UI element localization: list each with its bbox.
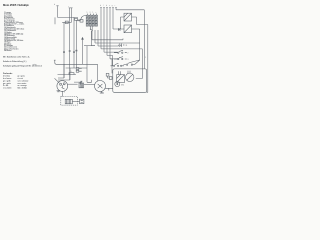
small box mid [75, 18, 78, 20]
wire: coil lead [72, 101, 79, 103]
wire: second bus [84, 45, 95, 47]
svg-text:1: 1 [145, 57, 146, 59]
wire: band horizontals [92, 30, 140, 46]
horn button switch [114, 57, 127, 60]
wire: vertical 69.7 [69, 8, 71, 80]
svg-text:3: 3 [128, 59, 129, 61]
ignition switch terminal labels [87, 12, 97, 14]
wire stub [78, 20, 81, 22]
ignition switch tail [90, 26, 95, 46]
connector pair [76, 68, 82, 73]
wire: over to lamp cluster [98, 64, 131, 80]
wire: top-left drop [55, 6, 78, 25]
svg-text:vi = violett: vi = violett [3, 87, 12, 90]
svg-text:b: b [106, 5, 107, 7]
wire: drops to magneto [58, 64, 70, 80]
terminal dots [90, 29, 93, 31]
svg-text:Farbcode: Farbcode [3, 72, 13, 75]
legend list [4, 12, 25, 52]
wire: magneto tail [61, 91, 63, 96]
wire: vertical 71.5 [71, 8, 73, 23]
ignition switch terminal pins [87, 14, 96, 16]
tail lamp 2 (hatched box) [124, 25, 132, 33]
wire: lamp1 leads [121, 17, 137, 29]
ground terminal symbol [120, 44, 122, 48]
speedometer lamp (circle) [126, 73, 134, 81]
wire: right vertical 142.4 [136, 49, 143, 79]
svg-text:s: s [109, 5, 110, 7]
svg-text:b: b [54, 4, 55, 6]
brake switch ticks [118, 28, 120, 31]
junction dot [80, 82, 81, 83]
wire: top bus to right edge [116, 10, 144, 69]
wire: vertical 76.4 [75, 20, 77, 67]
wire: connector row y22.3 [62, 21, 71, 23]
lamp housing enclosure [113, 69, 147, 92]
terminal dot [123, 44, 124, 46]
svg-text:Moto 250/5 / Schaltpl.: Moto 250/5 / Schaltpl. [3, 3, 29, 7]
pilot lamp in housing [115, 82, 120, 87]
horn 19 [95, 81, 106, 92]
ignition switch terminal dots [87, 16, 97, 26]
svg-text:31: 31 [126, 45, 128, 47]
fuse body [69, 73, 74, 75]
wire: staircase [101, 49, 142, 59]
brake light switch [124, 60, 140, 65]
wire: lamp2 leads [113, 28, 140, 30]
wire: switch feed drops [110, 55, 113, 73]
dimmer switch [114, 50, 127, 53]
connector block [65, 21, 68, 23]
svg-text:NB : Kabelfarben siehe Tafel u: NB : Kabelfarben siehe Tafel u. A. [3, 56, 30, 59]
svg-text:l: l [103, 5, 104, 7]
svg-text:r: r [68, 5, 69, 8]
svg-text:b: b [100, 5, 101, 7]
flywheel magneto 12 [57, 81, 68, 92]
headlamp 1 (hatched box) [124, 13, 132, 21]
top right node labels [100, 4, 116, 7]
wire: mid vertical to magneto area [86, 46, 88, 83]
svg-text:hbl = hellbl.: hbl = hellbl. [18, 88, 28, 90]
wire: left mid long horizontal [54, 60, 98, 64]
svg-text:2: 2 [128, 53, 129, 55]
wire: junction above condenser [74, 80, 92, 85]
connector pair left of housing [106, 73, 112, 79]
coil core [65, 99, 72, 104]
connector ticks [63, 50, 77, 52]
ignition switch 4 (terminal block) [86, 15, 97, 26]
svg-text:8: 8 [64, 92, 65, 94]
spark plug [80, 99, 84, 104]
wire: horizontal y68 [66, 67, 87, 69]
wire: right edge second [137, 25, 148, 93]
svg-text:rot ws: rot ws [33, 63, 37, 66]
stop lamp (hatched box) [117, 75, 125, 83]
wire: right vertical 139.7 [131, 29, 139, 62]
svg-text:24 Masse: 24 Masse [4, 49, 12, 52]
colour legend table [3, 76, 28, 90]
wire: diagonal into magneto [55, 78, 60, 83]
wire: top verticals bundle [101, 7, 116, 59]
ignition coil dashed box [61, 97, 78, 106]
wire: vertical 64 [63, 22, 65, 78]
svg-text:r: r [115, 4, 116, 7]
ground ticks [57, 91, 61, 92]
svg-text:Schalter in Ruhestellung ( 0 ): Schalter in Ruhestellung ( 0 ) [3, 60, 27, 63]
wire: vertical 74 [73, 17, 75, 68]
small box left of block [80, 20, 83, 23]
horn foot [100, 91, 104, 93]
wire: horn leads [105, 88, 113, 90]
wire: condenser to horn [84, 84, 95, 86]
combination switch [111, 63, 125, 66]
arrow feed [82, 38, 84, 65]
wire: box stub [78, 19, 81, 21]
svg-text:g: g [112, 5, 113, 7]
condenser 11 [79, 81, 84, 88]
svg-text:6V 4: 6V 4 [121, 85, 124, 87]
switch lever arc left of block [81, 16, 86, 21]
fuse 15 [58, 74, 77, 76]
wire: magneto to condenser [68, 83, 78, 85]
wire: bundle top ticks [100, 7, 117, 9]
